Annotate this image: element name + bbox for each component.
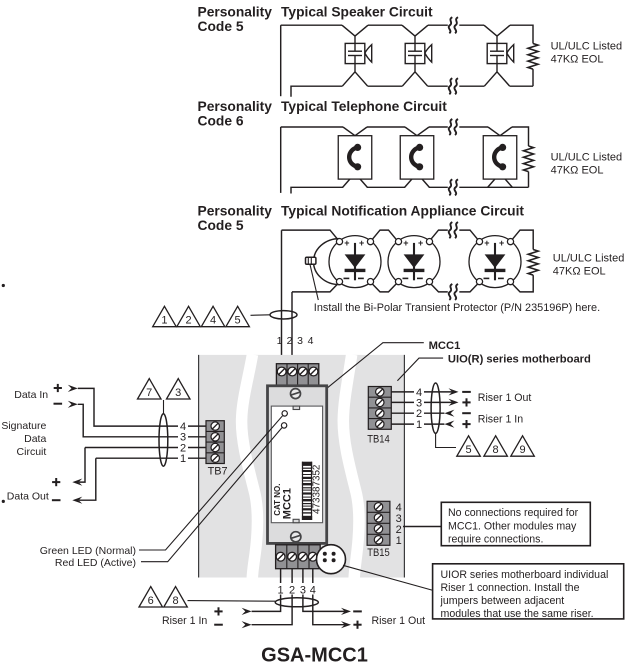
svg-text:Riser 1 connection. Install th: Riser 1 connection. Install the [441, 582, 580, 594]
svg-text:Riser 1 In: Riser 1 In [162, 615, 207, 627]
svg-text:Typical Telephone Circuit: Typical Telephone Circuit [281, 99, 447, 114]
svg-text:UL/ULC Listed: UL/ULC Listed [551, 152, 623, 164]
svg-text:1: 1 [278, 585, 284, 597]
svg-text:3: 3 [297, 335, 303, 347]
svg-text:6: 6 [148, 595, 154, 607]
svg-text:5: 5 [465, 444, 471, 456]
svg-text:2: 2 [185, 315, 191, 327]
svg-text:2: 2 [289, 585, 295, 597]
svg-text:Red LED (Active): Red LED (Active) [55, 557, 136, 569]
svg-text:8: 8 [493, 444, 499, 456]
svg-text:7: 7 [146, 387, 152, 399]
svg-text:Circuit: Circuit [17, 446, 47, 458]
svg-text:1: 1 [277, 335, 283, 347]
svg-text:3: 3 [175, 387, 181, 399]
svg-text:473387352: 473387352 [312, 465, 323, 514]
svg-text:Riser 1 Out: Riser 1 Out [478, 392, 532, 404]
svg-text:Green LED (Normal): Green LED (Normal) [40, 545, 136, 557]
svg-text:UL/ULC Listed: UL/ULC Listed [551, 41, 623, 53]
svg-text:2: 2 [287, 335, 293, 347]
svg-text:Personality: Personality [198, 204, 273, 219]
svg-text:require connections.: require connections. [448, 534, 543, 546]
svg-text:1: 1 [161, 315, 167, 327]
svg-text:1: 1 [416, 419, 422, 431]
svg-text:GSA-MCC1: GSA-MCC1 [261, 644, 368, 666]
svg-text:Typical Speaker Circuit: Typical Speaker Circuit [281, 5, 433, 20]
svg-text:4: 4 [308, 335, 314, 347]
svg-text:TB7: TB7 [208, 466, 228, 478]
svg-text:Code 5: Code 5 [198, 218, 244, 233]
svg-text:4: 4 [310, 585, 316, 597]
svg-text:Personality: Personality [198, 5, 273, 20]
svg-text:UIOR series motherboard indivi: UIOR series motherboard individual [441, 569, 609, 581]
svg-text:MCC1: MCC1 [429, 340, 461, 352]
svg-text:1: 1 [180, 453, 186, 465]
svg-text:Data In: Data In [14, 389, 48, 401]
svg-text:47KΩ EOL: 47KΩ EOL [551, 54, 604, 66]
svg-text:jumpers between adjacent: jumpers between adjacent [440, 595, 565, 607]
svg-text:MCC1: MCC1 [282, 488, 294, 519]
svg-text:MCC1. Other modules may: MCC1. Other modules may [448, 521, 577, 533]
svg-text:5: 5 [235, 315, 241, 327]
svg-text:modules that use the same rise: modules that use the same riser. [441, 608, 594, 620]
svg-text:Data Out: Data Out [7, 491, 49, 503]
svg-text:Personality: Personality [198, 99, 273, 114]
svg-text:9: 9 [519, 444, 525, 456]
svg-text:UIO(R) series motherboard: UIO(R) series motherboard [448, 353, 591, 365]
svg-text:47KΩ EOL: 47KΩ EOL [551, 165, 604, 177]
svg-text:Data: Data [24, 433, 46, 445]
svg-text:Riser 1 In: Riser 1 In [478, 414, 523, 426]
svg-text:1: 1 [396, 535, 402, 547]
svg-text:Install the Bi-Polar Transient: Install the Bi-Polar Transient Protector… [314, 302, 600, 314]
svg-text:Typical Notification Appliance: Typical Notification Appliance Circuit [281, 204, 524, 219]
svg-text:TB14: TB14 [367, 434, 390, 446]
svg-text:TB15: TB15 [367, 547, 390, 559]
svg-text:Signature: Signature [1, 420, 46, 432]
svg-text:UL/ULC Listed: UL/ULC Listed [553, 253, 625, 265]
svg-text:Riser 1 Out: Riser 1 Out [372, 615, 426, 627]
svg-text:No connections required for: No connections required for [448, 507, 579, 519]
svg-text:3: 3 [300, 585, 306, 597]
svg-text:8: 8 [172, 595, 178, 607]
svg-text:Code 6: Code 6 [198, 114, 244, 129]
svg-text:47KΩ EOL: 47KΩ EOL [553, 266, 606, 278]
svg-text:4: 4 [210, 315, 216, 327]
svg-text:Code 5: Code 5 [198, 19, 244, 34]
